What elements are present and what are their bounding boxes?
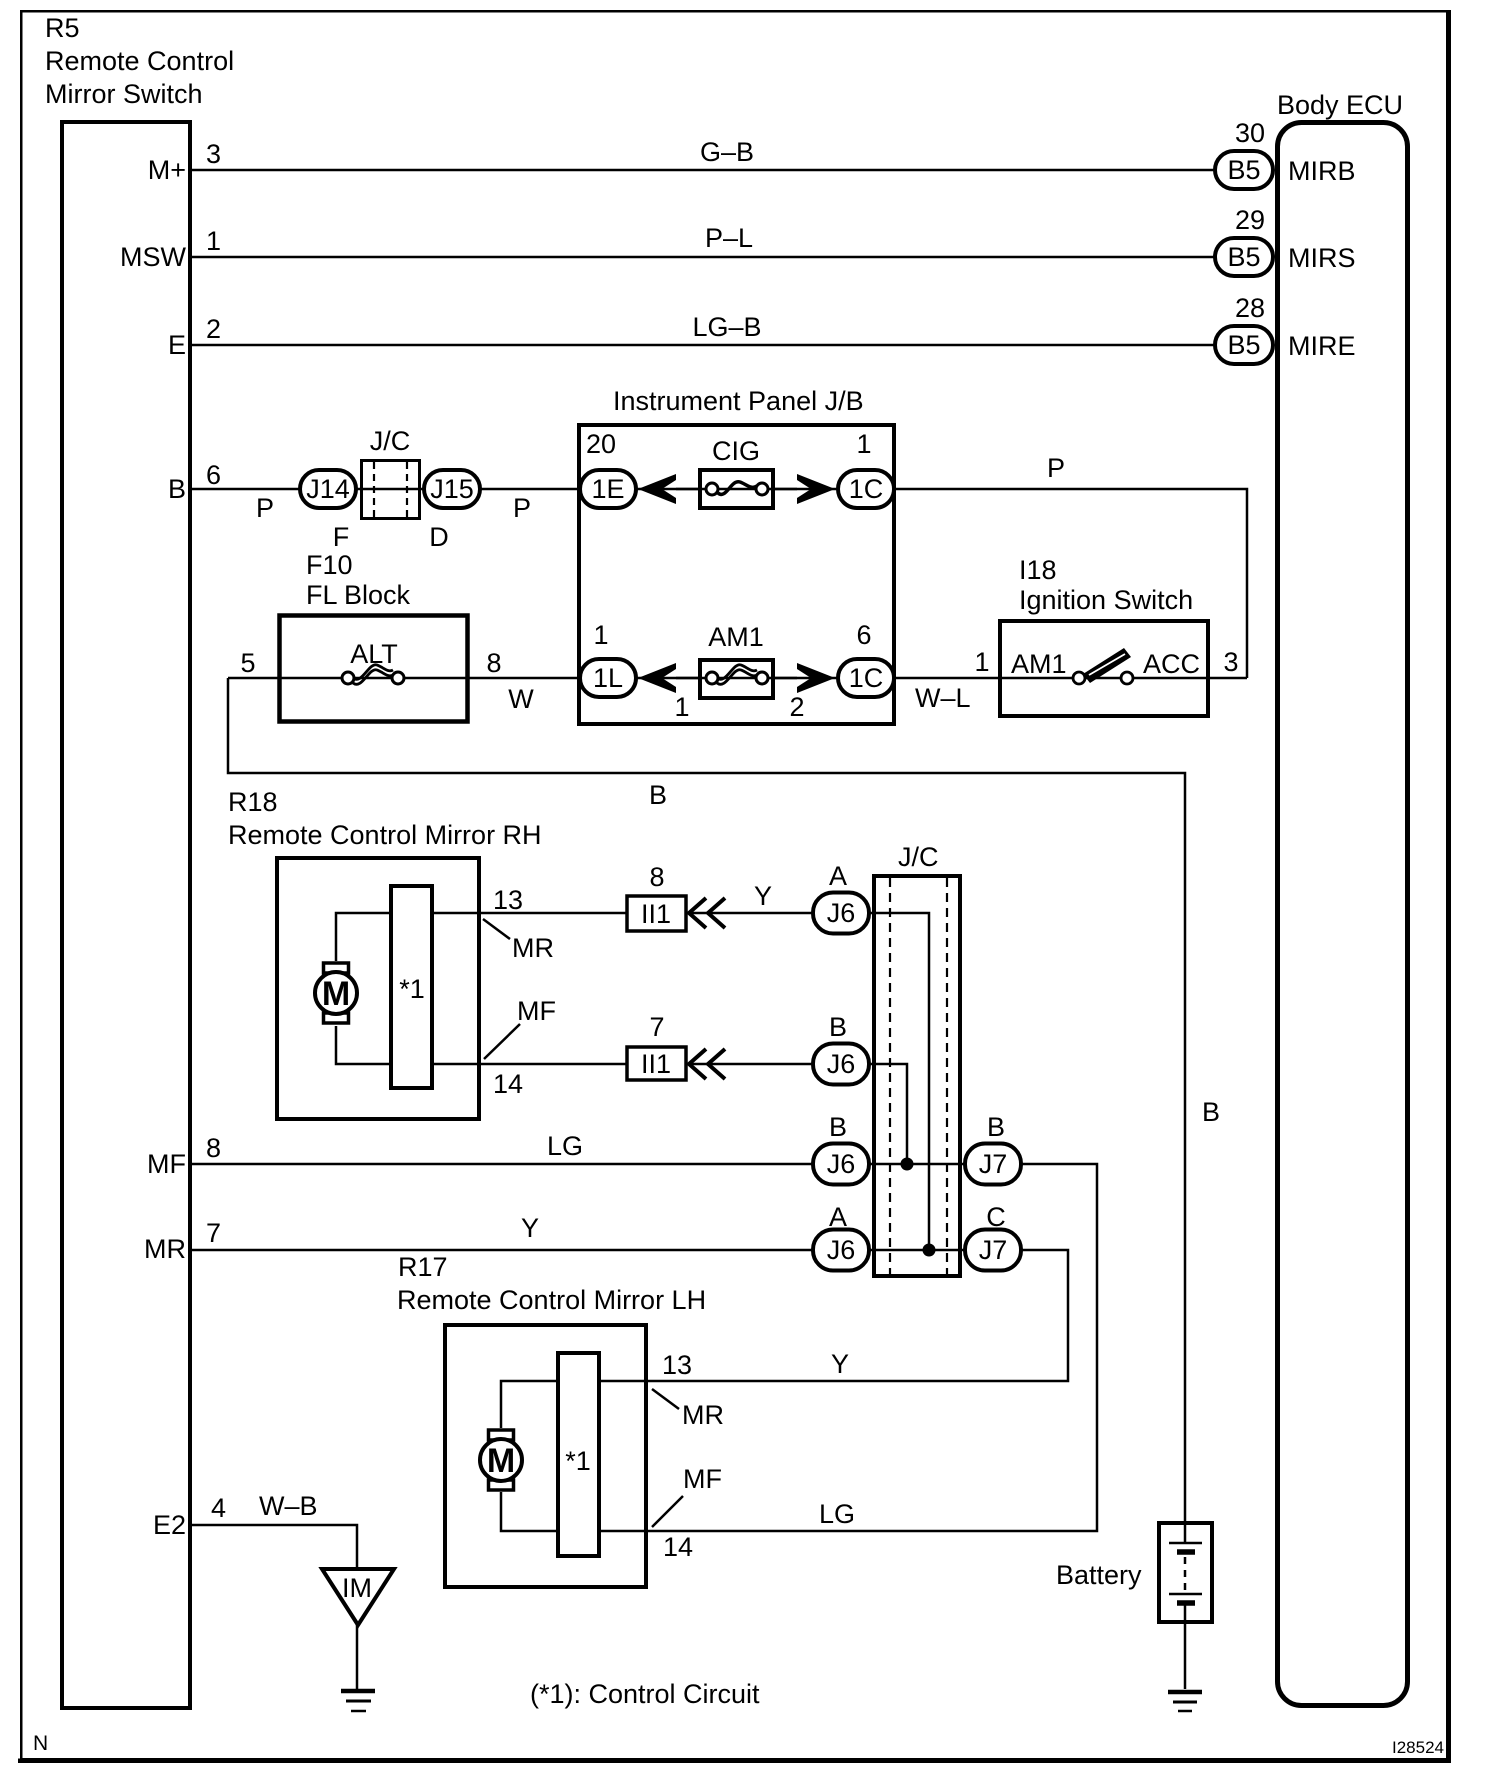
svg-text:J/C: J/C bbox=[898, 842, 939, 872]
svg-text:B: B bbox=[168, 474, 186, 504]
svg-text:20: 20 bbox=[586, 429, 616, 459]
svg-text:6: 6 bbox=[856, 620, 871, 650]
svg-text:4: 4 bbox=[211, 1493, 226, 1523]
svg-text:E2: E2 bbox=[153, 1510, 186, 1540]
svg-text:MF: MF bbox=[517, 996, 556, 1026]
svg-text:LG: LG bbox=[819, 1499, 855, 1529]
svg-text:Y: Y bbox=[831, 1349, 849, 1379]
svg-text:LG: LG bbox=[547, 1131, 583, 1161]
svg-text:Remote Control Mirror LH: Remote Control Mirror LH bbox=[397, 1285, 706, 1315]
svg-text:MR: MR bbox=[682, 1400, 724, 1430]
svg-text:13: 13 bbox=[662, 1350, 692, 1380]
svg-text:1: 1 bbox=[206, 226, 221, 256]
svg-text:J14: J14 bbox=[306, 474, 350, 504]
svg-text:7: 7 bbox=[649, 1012, 664, 1042]
svg-text:AM1: AM1 bbox=[708, 622, 764, 652]
svg-text:1: 1 bbox=[974, 647, 989, 677]
svg-text:E: E bbox=[168, 330, 186, 360]
svg-text:M+: M+ bbox=[148, 155, 186, 185]
svg-text:*1: *1 bbox=[399, 974, 425, 1004]
svg-text:W–B: W–B bbox=[259, 1491, 318, 1521]
svg-text:A: A bbox=[829, 1202, 847, 1232]
svg-text:N: N bbox=[33, 1732, 48, 1755]
svg-text:J6: J6 bbox=[827, 1049, 856, 1079]
svg-text:Y: Y bbox=[754, 881, 772, 911]
svg-text:B: B bbox=[829, 1012, 847, 1042]
svg-text:1L: 1L bbox=[593, 663, 623, 693]
svg-text:8: 8 bbox=[206, 1133, 221, 1163]
svg-text:B5: B5 bbox=[1227, 155, 1260, 185]
svg-text:MR: MR bbox=[144, 1234, 186, 1264]
svg-text:28: 28 bbox=[1235, 293, 1265, 323]
svg-text:1C: 1C bbox=[849, 663, 884, 693]
svg-text:B: B bbox=[829, 1112, 847, 1142]
svg-text:2: 2 bbox=[206, 314, 221, 344]
svg-text:I18: I18 bbox=[1019, 555, 1057, 585]
svg-text:B5: B5 bbox=[1227, 330, 1260, 360]
svg-text:J15: J15 bbox=[430, 474, 474, 504]
svg-text:J6: J6 bbox=[827, 1149, 856, 1179]
svg-text:R18: R18 bbox=[228, 787, 278, 817]
svg-text:AM1: AM1 bbox=[1011, 649, 1067, 679]
svg-text:MIRE: MIRE bbox=[1288, 331, 1356, 361]
svg-text:(*1): Control Circuit: (*1): Control Circuit bbox=[530, 1679, 760, 1709]
svg-text:LG–B: LG–B bbox=[692, 312, 761, 342]
svg-text:J7: J7 bbox=[979, 1235, 1008, 1265]
svg-text:MF: MF bbox=[147, 1149, 186, 1179]
svg-text:1C: 1C bbox=[849, 474, 884, 504]
svg-text:B: B bbox=[649, 780, 667, 810]
svg-text:7: 7 bbox=[206, 1218, 221, 1248]
svg-text:C: C bbox=[986, 1202, 1006, 1232]
svg-text:Instrument Panel J/B: Instrument Panel J/B bbox=[613, 386, 864, 416]
svg-text:Body ECU: Body ECU bbox=[1277, 90, 1403, 120]
svg-text:MF: MF bbox=[683, 1464, 722, 1494]
svg-text:IM: IM bbox=[342, 1573, 372, 1603]
svg-text:Mirror Switch: Mirror Switch bbox=[45, 79, 203, 109]
svg-text:W: W bbox=[508, 684, 534, 714]
svg-text:M: M bbox=[322, 975, 350, 1013]
svg-text:FL Block: FL Block bbox=[306, 580, 411, 610]
svg-text:R17: R17 bbox=[398, 1252, 448, 1282]
svg-text:8: 8 bbox=[649, 862, 664, 892]
svg-text:13: 13 bbox=[493, 885, 523, 915]
svg-text:Ignition Switch: Ignition Switch bbox=[1019, 585, 1193, 615]
svg-text:F10: F10 bbox=[306, 550, 353, 580]
svg-text:14: 14 bbox=[663, 1532, 693, 1562]
svg-text:1: 1 bbox=[856, 429, 871, 459]
svg-text:Battery: Battery bbox=[1056, 1560, 1142, 1590]
svg-text:3: 3 bbox=[206, 139, 221, 169]
svg-text:3: 3 bbox=[1223, 647, 1238, 677]
svg-text:B5: B5 bbox=[1227, 242, 1260, 272]
svg-text:P: P bbox=[513, 493, 531, 523]
svg-text:G–B: G–B bbox=[700, 137, 754, 167]
svg-text:Y: Y bbox=[521, 1213, 539, 1243]
svg-text:F: F bbox=[333, 522, 350, 552]
svg-text:1: 1 bbox=[674, 692, 689, 722]
svg-text:M: M bbox=[487, 1442, 515, 1480]
svg-text:II1: II1 bbox=[641, 1049, 671, 1079]
svg-text:CIG: CIG bbox=[712, 436, 760, 466]
svg-text:P: P bbox=[256, 493, 274, 523]
svg-text:J7: J7 bbox=[979, 1149, 1008, 1179]
svg-text:P–L: P–L bbox=[705, 223, 753, 253]
svg-text:J6: J6 bbox=[827, 898, 856, 928]
svg-text:MIRS: MIRS bbox=[1288, 243, 1356, 273]
svg-text:1E: 1E bbox=[591, 474, 624, 504]
svg-text:MR: MR bbox=[512, 933, 554, 963]
svg-text:6: 6 bbox=[206, 460, 221, 490]
svg-text:*1: *1 bbox=[565, 1446, 591, 1476]
svg-text:ACC: ACC bbox=[1143, 649, 1200, 679]
svg-text:I28524: I28524 bbox=[1392, 1738, 1444, 1757]
svg-text:Remote Control: Remote Control bbox=[45, 46, 234, 76]
svg-text:J/C: J/C bbox=[370, 426, 411, 456]
svg-text:II1: II1 bbox=[641, 899, 671, 929]
svg-text:14: 14 bbox=[493, 1069, 523, 1099]
svg-text:B: B bbox=[1202, 1097, 1220, 1127]
svg-text:W–L: W–L bbox=[915, 683, 971, 713]
svg-text:8: 8 bbox=[486, 648, 501, 678]
svg-text:MIRB: MIRB bbox=[1288, 156, 1356, 186]
svg-text:5: 5 bbox=[240, 648, 255, 678]
svg-text:J6: J6 bbox=[827, 1235, 856, 1265]
svg-text:30: 30 bbox=[1235, 118, 1265, 148]
svg-text:B: B bbox=[987, 1112, 1005, 1142]
svg-text:MSW: MSW bbox=[120, 242, 187, 272]
svg-text:D: D bbox=[429, 522, 449, 552]
svg-text:29: 29 bbox=[1235, 205, 1265, 235]
svg-text:Remote Control Mirror RH: Remote Control Mirror RH bbox=[228, 820, 542, 850]
svg-text:A: A bbox=[829, 861, 847, 891]
svg-text:ALT: ALT bbox=[350, 639, 398, 669]
svg-text:P: P bbox=[1047, 453, 1065, 483]
svg-text:R5: R5 bbox=[45, 13, 80, 43]
svg-text:2: 2 bbox=[789, 692, 804, 722]
svg-text:1: 1 bbox=[593, 620, 608, 650]
